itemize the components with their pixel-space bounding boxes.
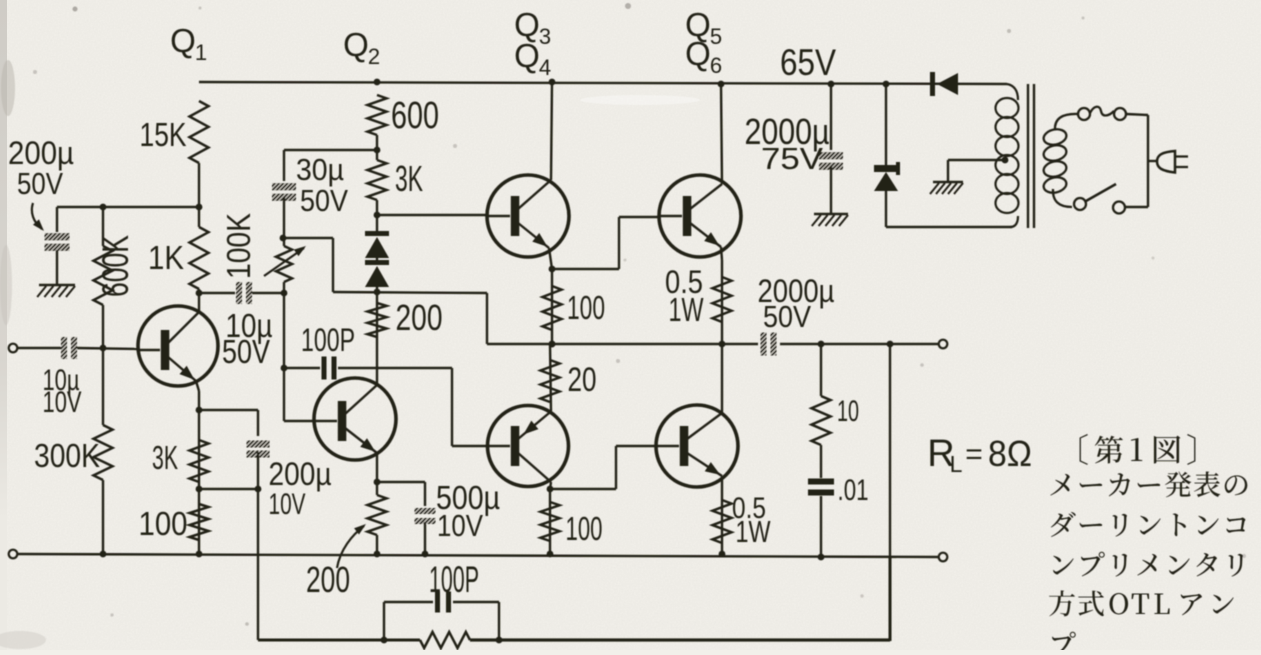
svg-text:65V: 65V	[780, 42, 836, 83]
svg-text:3K: 3K	[395, 158, 423, 199]
svg-text:75V: 75V	[761, 141, 823, 176]
svg-text:6: 6	[710, 53, 722, 78]
svg-text:4: 4	[539, 55, 551, 80]
svg-text:.01: .01	[838, 474, 869, 507]
svg-text:5: 5	[710, 24, 722, 49]
svg-text:100P: 100P	[301, 322, 355, 358]
svg-text:Q: Q	[685, 35, 711, 72]
svg-text:600K: 600K	[95, 235, 136, 297]
svg-text:1W: 1W	[669, 291, 705, 328]
svg-text:10V: 10V	[269, 488, 306, 521]
svg-text:1: 1	[195, 40, 207, 65]
svg-text:100K: 100K	[220, 213, 257, 279]
svg-text:100P: 100P	[429, 559, 479, 600]
svg-text:100: 100	[566, 510, 603, 547]
svg-text:600: 600	[391, 95, 439, 137]
svg-text:50V: 50V	[763, 299, 811, 334]
svg-text:50V: 50V	[300, 183, 348, 218]
svg-text:1K: 1K	[148, 239, 184, 276]
svg-text:300K: 300K	[34, 437, 100, 474]
svg-text:10V: 10V	[437, 508, 483, 543]
svg-text:2: 2	[368, 44, 380, 69]
svg-text:L: L	[950, 451, 963, 477]
svg-text:20: 20	[568, 361, 597, 399]
svg-text:50V: 50V	[17, 166, 63, 201]
svg-text:10: 10	[837, 395, 859, 428]
svg-text:=: =	[965, 438, 983, 471]
svg-text:1W: 1W	[736, 514, 772, 549]
svg-text:100: 100	[567, 289, 605, 326]
svg-text:30µ: 30µ	[296, 152, 344, 187]
svg-text:200: 200	[306, 559, 350, 600]
svg-text:100: 100	[139, 505, 188, 542]
svg-text:Q: Q	[170, 22, 196, 59]
svg-text:3: 3	[539, 24, 551, 49]
svg-text:15K: 15K	[140, 116, 187, 153]
svg-text:200µ: 200µ	[269, 456, 332, 492]
svg-text:50V: 50V	[222, 333, 270, 370]
svg-text:8Ω: 8Ω	[988, 433, 1032, 474]
svg-text:Q: Q	[343, 26, 369, 63]
svg-text:Q: Q	[514, 37, 540, 74]
svg-text:200: 200	[396, 297, 443, 338]
svg-text:3K: 3K	[152, 439, 178, 476]
svg-text:10V: 10V	[43, 386, 82, 419]
